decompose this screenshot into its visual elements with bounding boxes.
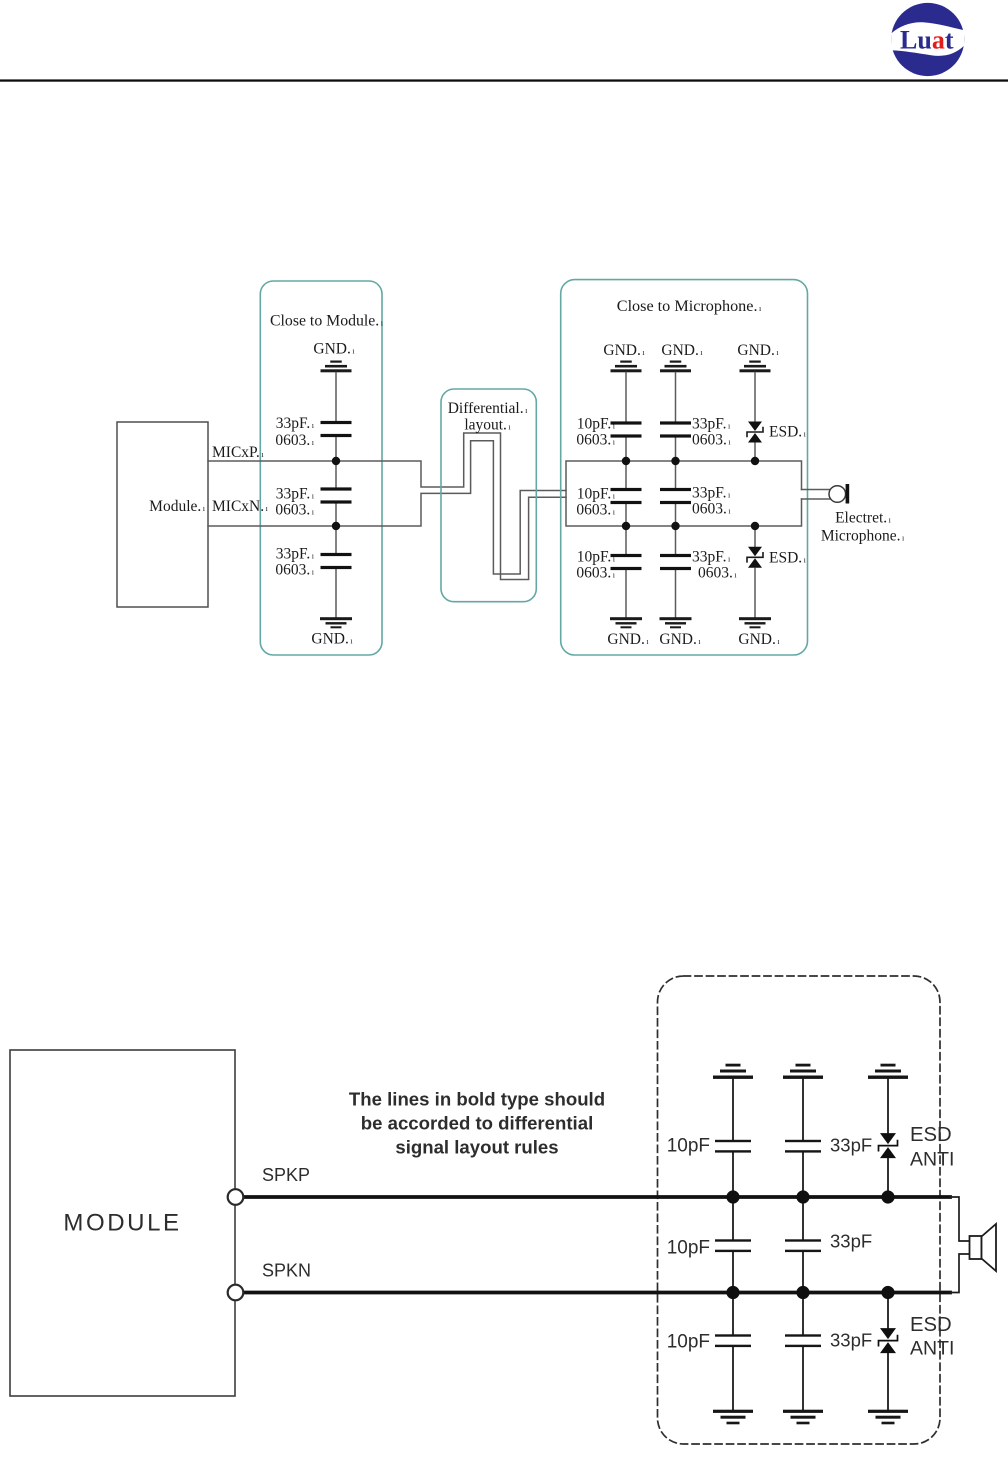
svg-text:0603.ı: 0603.ı xyxy=(576,565,615,582)
svg-text:be accorded to differential: be accorded to differential xyxy=(361,1113,593,1134)
wire MICxN xyxy=(208,441,566,574)
svg-text:0603.ı: 0603.ı xyxy=(576,502,615,519)
svg-text:Module.ı: Module.ı xyxy=(149,498,206,515)
svg-text:0603.ı: 0603.ı xyxy=(275,502,314,519)
svg-text:0603.ı: 0603.ı xyxy=(275,432,314,449)
wire SPKP (bold) xyxy=(244,1195,951,1199)
svg-text:0603.ı: 0603.ı xyxy=(692,501,731,518)
box Close to Module xyxy=(260,281,382,655)
svg-text:MODULE: MODULE xyxy=(63,1210,181,1237)
svg-text:ESD: ESD xyxy=(910,1314,952,1336)
speaker symbol xyxy=(970,1236,982,1259)
svg-text:33pF.ı: 33pF.ı xyxy=(276,486,315,503)
ground (inverted, top col 1) xyxy=(611,361,642,373)
capacitor C2 33pF (across pair) xyxy=(321,487,352,503)
svg-text:33pF.ı: 33pF.ı xyxy=(692,549,731,566)
svg-text:Electret.ı: Electret.ı xyxy=(835,510,892,527)
wire mic stubs xyxy=(802,490,830,500)
capacitor 10pF (spk row2 col1) xyxy=(715,1239,751,1252)
svg-text:33pF: 33pF xyxy=(830,1231,872,1252)
svg-text:GND.ı: GND.ı xyxy=(738,631,780,648)
junction MICxP/C1 xyxy=(332,457,340,465)
wire C1 column xyxy=(335,373,337,618)
svg-text:signal layout rules: signal layout rules xyxy=(395,1137,558,1158)
svg-text:33pF: 33pF xyxy=(830,1330,872,1351)
module box (mic) xyxy=(117,422,208,607)
dashed region box xyxy=(658,976,941,1444)
capacitor C9 33pF (row3 col2) xyxy=(660,554,691,570)
ESD diode (spk bottom) xyxy=(879,1328,898,1353)
capacitor C1 33pF (MICxP to GND) xyxy=(321,421,352,437)
ground (inverted, top spk col 2) xyxy=(783,1064,823,1079)
svg-text:0603.ı: 0603.ı xyxy=(698,565,737,582)
junction SPKP col 803 xyxy=(796,1190,809,1203)
svg-text:Luat: Luat xyxy=(900,26,954,55)
svg-text:SPKP: SPKP xyxy=(262,1165,310,1185)
svg-text:10pF.ı: 10pF.ı xyxy=(577,416,616,433)
terminal SPKN xyxy=(228,1285,244,1301)
svg-text:0603.ı: 0603.ı xyxy=(692,432,731,449)
svg-text:ANTI: ANTI xyxy=(910,1149,954,1171)
svg-text:10pF: 10pF xyxy=(667,1136,710,1157)
MODULE box (speaker) xyxy=(10,1050,235,1396)
ground (inverted, top col 2) xyxy=(660,361,691,373)
ground (inverted, top of C1) xyxy=(321,361,352,373)
capacitor C7 33pF (row1 col2) xyxy=(660,421,691,437)
electret microphone symbol xyxy=(829,486,846,503)
wire to speaker (upper) xyxy=(950,1197,970,1241)
capacitor 33pF (spk row1 col2) xyxy=(785,1140,821,1153)
svg-text:10pF: 10pF xyxy=(667,1332,710,1353)
wire spk column 1 xyxy=(732,1079,734,1410)
ground (inverted, top spk col 1) xyxy=(713,1064,753,1079)
ground (earth, bottom of C3) xyxy=(320,617,352,628)
junction col 626 / MICxP xyxy=(622,457,630,465)
junction MICxN/C3 xyxy=(332,522,340,530)
svg-text:33pF.ı: 33pF.ı xyxy=(692,485,731,502)
svg-text:ESD: ESD xyxy=(910,1124,952,1146)
svg-text:10pF: 10pF xyxy=(667,1238,710,1259)
svg-text:10pF.ı: 10pF.ı xyxy=(577,549,616,566)
ground (earth, bottom spk col 3) xyxy=(868,1410,908,1425)
wire MICxP xyxy=(208,433,566,580)
junction col 675.5 / MICxN xyxy=(671,522,679,530)
svg-text:GND.ı: GND.ı xyxy=(313,341,355,358)
svg-text:GND.ı: GND.ı xyxy=(311,631,353,648)
svg-text:GND.ı: GND.ı xyxy=(607,631,649,648)
capacitor C4 10pF (row1 col1) xyxy=(611,421,642,437)
wire to speaker (lower) xyxy=(950,1254,970,1293)
ground (earth, bottom spk col 1) xyxy=(713,1410,753,1425)
junction col 626 / MICxN xyxy=(622,522,630,530)
junction col 755 / MICxN xyxy=(751,522,759,530)
wire column 1 (mic) xyxy=(625,373,627,618)
junction SPKP col 733 xyxy=(726,1190,739,1203)
svg-text:SPKN: SPKN xyxy=(262,1261,311,1281)
svg-text:0603.ı: 0603.ı xyxy=(576,432,615,449)
wire SPKN (bold) xyxy=(244,1291,951,1295)
svg-text:10pF.ı: 10pF.ı xyxy=(577,486,616,503)
junction SPKP col 888 xyxy=(881,1190,894,1203)
wire column 2 (mic) xyxy=(675,373,677,618)
junction SPKN col 803 xyxy=(796,1286,809,1299)
ESD diode D1 (mic, top) xyxy=(747,422,763,443)
svg-text:The lines in bold type should: The lines in bold type should xyxy=(349,1089,605,1110)
svg-text:33pF: 33pF xyxy=(830,1135,872,1156)
svg-text:layout.ı: layout.ı xyxy=(464,417,511,434)
svg-text:33pF.ı: 33pF.ı xyxy=(276,546,315,563)
capacitor C5 10pF (row2 col1) xyxy=(611,488,642,504)
capacitor 33pF (spk row2 col2) xyxy=(785,1239,821,1252)
header rule xyxy=(0,79,1008,81)
junction col 675.5 / MICxP xyxy=(671,457,679,465)
svg-text:33pF.ı: 33pF.ı xyxy=(276,415,315,432)
svg-text:0603.ı: 0603.ı xyxy=(275,562,314,579)
ground (inverted, top spk col 3) xyxy=(868,1064,908,1079)
ground (earth, bottom col 3) xyxy=(739,617,771,628)
ESD diode D2 (mic, bottom) xyxy=(747,547,763,568)
wire spk column 2 xyxy=(802,1079,804,1410)
svg-text:ANTI: ANTI xyxy=(910,1338,954,1360)
wire column 3 (mic, ESD) xyxy=(754,373,756,618)
junction col 755 / MICxP xyxy=(751,457,759,465)
junction SPKN col 888 xyxy=(881,1286,894,1299)
capacitor 10pF (spk row3 col1) xyxy=(715,1334,751,1347)
svg-text:GND.ı: GND.ı xyxy=(659,631,701,648)
ground (earth, bottom spk col 2) xyxy=(783,1410,823,1425)
logo Luat xyxy=(891,3,964,76)
capacitor 33pF (spk row3 col2) xyxy=(785,1334,821,1347)
svg-text:Close to Module.ı: Close to Module.ı xyxy=(270,313,384,330)
terminal SPKP xyxy=(228,1189,244,1205)
capacitor C6 10pF (row3 col1) xyxy=(611,554,642,570)
ground (inverted, top col 3) xyxy=(740,361,771,373)
capacitor C3 33pF (MICxN to GND) xyxy=(321,553,352,569)
wire spk column 3 (ESD) xyxy=(887,1079,889,1410)
svg-text:GND.ı: GND.ı xyxy=(603,342,645,359)
svg-text:Microphone.ı: Microphone.ı xyxy=(821,528,905,545)
ESD diode (spk top) xyxy=(879,1133,898,1158)
box Close to Microphone xyxy=(561,280,808,655)
wire bus rectangle (mic nets) xyxy=(566,461,802,526)
svg-text:33pF.ı: 33pF.ı xyxy=(692,416,731,433)
svg-text:ESD.ı: ESD.ı xyxy=(769,550,807,567)
ground (earth, bottom col 2) xyxy=(660,617,692,628)
capacitor 10pF (spk row1 col1) xyxy=(715,1140,751,1153)
svg-text:Differential.ı: Differential.ı xyxy=(448,400,528,417)
box Differential layout xyxy=(441,389,536,602)
svg-text:GND.ı: GND.ı xyxy=(737,342,779,359)
capacitor C8 33pF (row2 col2) xyxy=(660,488,691,504)
svg-text:GND.ı: GND.ı xyxy=(661,342,703,359)
svg-text:Close to Microphone.ı: Close to Microphone.ı xyxy=(617,297,762,315)
svg-text:ESD.ı: ESD.ı xyxy=(769,424,807,441)
ground (earth, bottom col 1) xyxy=(610,617,642,628)
junction SPKN col 733 xyxy=(726,1286,739,1299)
svg-text:MICxP.ı: MICxP.ı xyxy=(212,444,264,461)
